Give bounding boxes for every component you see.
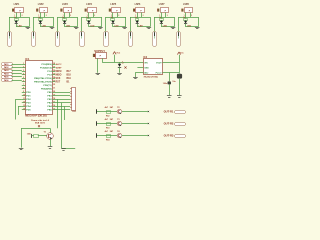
svg-text:GND: GND [144,67,149,69]
svg-text:MOSI: MOSI [56,71,62,73]
svg-text:PD6(AIN0): PD6(AIN0) [41,87,52,90]
svg-text:PB6(XTAL1/TOS): PB6(XTAL1/TOS) [34,77,52,80]
svg-text:2: 2 [70,15,71,17]
svg-text:547: 547 [110,118,114,121]
svg-text:T2: T2 [117,107,120,109]
svg-text:LSP7: LSP7 [159,4,165,6]
svg-text:T1: T1 [44,131,47,133]
svg-text:10: 10 [23,95,25,97]
svg-text:OUT-R1: OUT-R1 [164,110,174,114]
svg-text:1k: 1k [159,17,161,19]
svg-text:VCC: VCC [116,52,120,54]
svg-text:9: 9 [23,91,24,93]
svg-text:2: 2 [118,15,119,17]
svg-text:12: 12 [23,102,25,104]
svg-text:B1: B1 [67,82,71,84]
svg-text:IC1: IC1 [25,57,30,61]
svg-text:OUT-R2: OUT-R2 [164,122,174,126]
svg-text:LSP1: LSP1 [14,4,20,6]
svg-text:2: 2 [94,15,95,17]
svg-text:LED: LED [139,25,144,27]
svg-text:VCC: VCC [180,53,184,55]
svg-text:4: 4 [23,72,24,75]
svg-text:2: 2 [23,66,24,68]
svg-text:Power: Power [156,72,162,74]
svg-text:LED: LED [66,25,71,27]
svg-text:10u: 10u [172,81,176,83]
svg-text:MEGA8-P (DIL28): MEGA8-P (DIL28) [25,113,46,117]
svg-text:13: 13 [23,105,25,107]
svg-text:PD5(T1): PD5(T1) [43,85,52,87]
svg-text:MISO: MISO [56,74,62,76]
svg-text:LSP8: LSP8 [183,4,189,6]
svg-text:LED: LED [114,25,119,27]
svg-text:PAD2: PAD2 [4,66,9,69]
svg-text:BvB 12Vd: BvB 12Vd [35,123,45,125]
svg-text:PAD3: PAD3 [4,69,9,72]
svg-text:2: 2 [167,15,168,17]
svg-text:2: 2 [46,15,47,17]
svg-text:78L05Z (TO92): 78L05Z (TO92) [144,76,159,78]
svg-text:VIN: VIN [144,63,148,65]
svg-text:R12: R12 [106,115,109,117]
svg-text:LSP3: LSP3 [62,4,68,6]
svg-text:OUT-R3: OUT-R3 [164,134,174,138]
svg-text:AVCC: AVCC [56,63,62,66]
svg-text:PC5(ADC5): PC5(ADC5) [40,66,52,69]
svg-text:547: 547 [110,106,114,109]
svg-text:PAD4: PAD4 [4,72,9,75]
svg-text:B19: B19 [67,78,72,80]
svg-text:PC6(RES): PC6(RES) [41,64,51,66]
svg-text:1: 1 [23,63,24,65]
svg-text:547: 547 [110,130,114,133]
svg-text:2: 2 [143,15,144,17]
svg-text:1k: 1k [14,17,16,19]
svg-text:1k: 1k [38,17,40,19]
svg-text:100n: 100n [163,83,168,85]
svg-text:AREF: AREF [56,66,62,69]
svg-text:1k: 1k [86,17,88,19]
svg-text:1k: 1k [135,17,137,19]
svg-text:2: 2 [22,15,23,17]
svg-text:SCK: SCK [56,78,61,80]
svg-text:6: 6 [23,80,24,82]
svg-text:B17: B17 [67,71,72,73]
svg-text:8: 8 [23,88,24,90]
svg-text:T4: T4 [117,130,120,133]
svg-text:4k7: 4k7 [105,106,109,109]
svg-text:RST: RST [56,82,61,84]
svg-text:PAD5: PAD5 [4,76,9,79]
svg-text:IC2: IC2 [143,56,147,59]
svg-text:5: 5 [23,77,24,79]
svg-text:1k: 1k [183,17,185,19]
svg-text:LED: LED [18,25,23,27]
svg-text:T3: T3 [117,119,120,121]
svg-text:21: 21 [53,88,55,90]
svg-text:R13: R13 [106,127,109,129]
svg-text:1k: 1k [62,17,64,19]
svg-text:SV1: SV1 [72,111,77,113]
svg-text:VOUT: VOUT [156,63,162,65]
svg-text:R14: R14 [106,138,110,141]
svg-text:B18: B18 [67,74,72,76]
svg-text:1k: 1k [111,17,113,19]
svg-text:LED: LED [42,25,47,27]
svg-text:LSP2: LSP2 [38,4,44,6]
svg-text:7: 7 [23,84,24,86]
svg-text:3: 3 [23,70,24,72]
svg-text:11: 11 [23,98,25,100]
svg-text:LED: LED [187,25,192,27]
svg-text:LSP6: LSP6 [135,4,141,6]
svg-text:LED: LED [163,25,168,27]
svg-text:PB7(XTAL2/TOS): PB7(XTAL2/TOS) [34,80,52,83]
svg-text:2: 2 [191,15,192,17]
svg-text:ADJ: ADJ [144,71,148,74]
svg-text:22: 22 [53,84,55,86]
svg-text:14: 14 [23,108,25,111]
svg-text:LED: LED [90,25,95,27]
svg-text:PAD6: PAD6 [4,79,9,82]
svg-text:4k7: 4k7 [105,118,109,121]
svg-text:4k7: 4k7 [105,130,109,133]
svg-text:LSP4: LSP4 [86,3,92,6]
svg-text:LSP5: LSP5 [110,4,116,6]
